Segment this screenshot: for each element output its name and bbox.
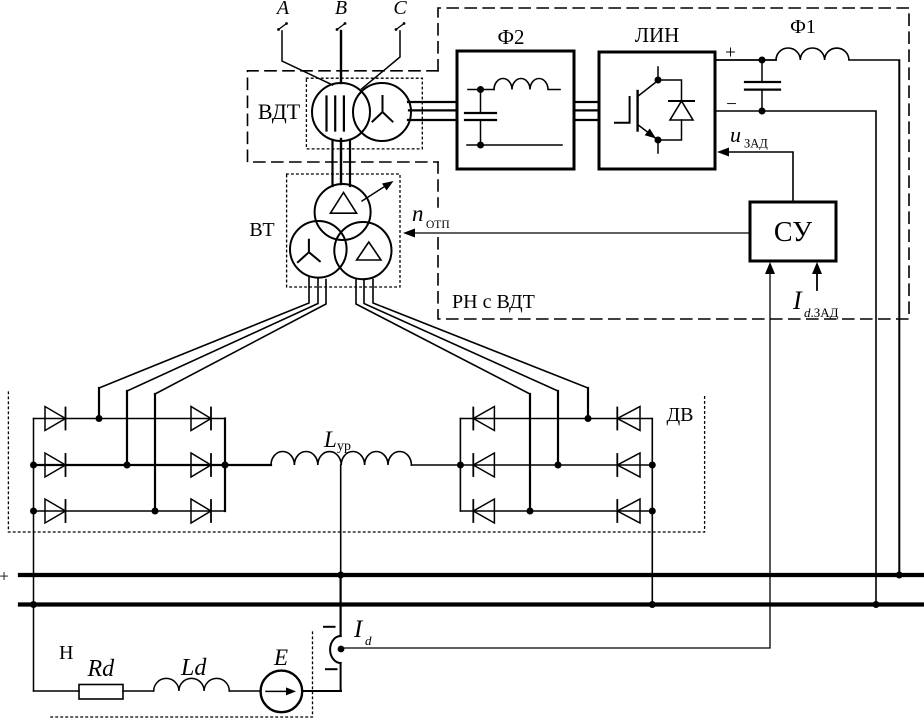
svg-text:ОТП: ОТП	[426, 219, 450, 231]
inverter ЛИН box	[599, 52, 715, 169]
transformer ВДТ primary circle	[312, 83, 370, 141]
wire bus ВДТ to Ф2 (3 lines)	[408, 102, 457, 120]
junction dot IGBT top	[655, 77, 662, 84]
svg-text:I: I	[792, 286, 803, 315]
wire left bridge tap verticals	[99, 388, 155, 511]
wire bus Ф2 to ЛИН (3 lines)	[574, 102, 599, 120]
junction dot plus bus	[896, 572, 903, 579]
inductor L Ф2	[494, 79, 560, 90]
transformer ВТ delta symbol	[357, 242, 381, 260]
junction dot Ф1 top	[759, 57, 766, 64]
svg-text:u: u	[730, 122, 741, 147]
wire Id feedback to СУ	[343, 274, 770, 648]
wire Id sensor from plus bus	[340, 575, 342, 636]
svg-text:ВТ: ВТ	[249, 219, 274, 241]
wire load left segment	[34, 690, 80, 692]
transformer ВТ primary circle	[315, 184, 371, 240]
svg-text:E: E	[273, 645, 288, 670]
svg-text:+: +	[0, 567, 9, 586]
svg-text:ЗАД: ЗАД	[744, 137, 768, 151]
wire phase A	[282, 31, 333, 85]
junction dots on minus bus	[30, 601, 656, 608]
svg-text:d: d	[365, 633, 372, 648]
source E arrow	[266, 687, 296, 695]
wire E to Id sensor	[302, 663, 341, 691]
diode VD1	[45, 407, 66, 431]
wire u_ЗАД	[728, 152, 793, 202]
wire Ф1 plus down to bus	[898, 61, 900, 576]
arrow into СУ from Id feedback	[765, 262, 775, 274]
filter Ф2 box	[457, 51, 574, 169]
wire ВТ delta to right bridge phase 3	[373, 280, 588, 419]
frame: dotted box around ВТ transformer symbol	[287, 174, 400, 287]
diode VD10	[617, 453, 640, 477]
arrow tap changer on ВТ	[362, 177, 396, 201]
label minus upper at Id	[324, 626, 335, 628]
diode VD4	[191, 453, 211, 477]
wire − output of ЛИН	[715, 111, 876, 605]
junction dots left bridge taps	[96, 415, 159, 515]
diode VD7	[473, 407, 494, 431]
diode VD ЛИН triangle	[670, 101, 693, 120]
wire left bridge row 3	[34, 510, 226, 512]
wire Rd to Ld	[123, 690, 154, 692]
label n_ОТП	[412, 201, 450, 231]
wire right bridge tap verticals	[530, 388, 588, 511]
wire n_ОТП	[415, 232, 750, 234]
diode VD2	[191, 407, 211, 431]
junction dots left bridge anode bus	[30, 462, 37, 515]
wire Ld to E	[229, 690, 260, 692]
svg-text:ур: ур	[337, 439, 351, 454]
capacitor C Ф2	[465, 90, 496, 146]
svg-text:C: C	[393, 0, 407, 19]
transistor IGBT collector lead	[638, 67, 658, 97]
terminal tick C	[395, 22, 406, 31]
frame: dotted box ДВ rectifier group	[8, 392, 704, 532]
terminal tick A	[277, 22, 288, 31]
junction dot Lур tap on plus bus	[337, 572, 344, 579]
diode VD12	[617, 499, 640, 523]
svg-text:B: B	[335, 0, 347, 19]
wire + output of ЛИН	[715, 59, 776, 61]
junction dot Ф1 bottom	[759, 108, 766, 115]
transistor IGBT body bar	[636, 91, 638, 131]
source E circle	[261, 671, 303, 713]
transformer ВТ star secondary circle	[290, 221, 347, 278]
transformer ВДТ secondary circle	[353, 83, 411, 141]
wire Ф2 bottom	[467, 144, 562, 146]
transformer ВТ star symbol	[298, 240, 320, 262]
diode VD5	[45, 499, 66, 523]
wire bus ВДТ to ВТ (3 lines)	[333, 139, 351, 186]
wire Lур center tap to plus bus	[340, 465, 342, 575]
svg-text:ЛИН: ЛИН	[635, 23, 680, 47]
diode VD3	[45, 453, 66, 477]
svg-text:−: −	[726, 94, 737, 115]
frame: dotted box load Н	[50, 632, 313, 717]
svg-text:Ф2: Ф2	[497, 25, 524, 49]
wire right bridge anode bus down to minus bus	[651, 419, 653, 605]
wire ВТ star to left bridge phase 2	[127, 279, 318, 466]
wire ВТ delta to right bridge phase 1	[356, 279, 530, 512]
wire left bridge cathode bus	[224, 419, 226, 512]
svg-text:Ф1: Ф1	[790, 16, 816, 38]
frame: dotted box around ВДТ transformer symbol	[306, 78, 422, 149]
bus bar plus	[20, 573, 924, 577]
label u_ЗАД	[730, 122, 768, 151]
svg-text:+: +	[725, 43, 736, 64]
junction dot minus bus	[873, 601, 880, 608]
svg-text:A: A	[275, 0, 290, 19]
transformer ВДТ winding bars	[327, 97, 344, 131]
wire phase C	[362, 31, 401, 89]
transformer ВДТ star symbol	[373, 96, 393, 122]
wire right bridge row 3	[460, 510, 652, 512]
wire Lур to right bridge	[411, 464, 460, 466]
svg-text:Н: Н	[59, 642, 73, 664]
wire right bridge row 2	[460, 464, 652, 466]
transistor IGBT gate	[615, 97, 630, 123]
wire I_d.ЗАД input	[816, 274, 818, 290]
svg-text:ВДТ: ВДТ	[258, 99, 301, 124]
transistor IGBT emitter lead	[638, 125, 658, 154]
frame: dashed box РН с ВДТ	[438, 8, 909, 319]
inductor Ld	[154, 678, 230, 691]
junction dots right bridge taps	[527, 415, 592, 515]
inductor L Ф1	[776, 48, 899, 60]
bus bar minus	[20, 602, 924, 606]
svg-text:СУ: СУ	[774, 217, 812, 248]
diode VD8	[617, 407, 640, 431]
label I_d	[353, 616, 372, 648]
wire right bridge row 1	[460, 418, 652, 420]
svg-text:d.ЗАД: d.ЗАД	[804, 305, 839, 320]
svg-text:РН с ВДТ: РН с ВДТ	[452, 291, 535, 313]
wire diode loop	[658, 80, 682, 140]
wire left bridge row 1	[34, 418, 226, 420]
terminal tick B	[336, 22, 347, 31]
transistor IGBT emitter arrow	[645, 129, 659, 142]
wire ВТ delta to right bridge phase 2	[364, 279, 558, 465]
frame: dashed box ВДТ	[248, 71, 439, 162]
arrow I_d.ЗАД into СУ	[812, 262, 822, 274]
svg-text:Rd: Rd	[87, 656, 116, 682]
wire left bridge row 2	[34, 464, 272, 466]
wire ВТ star to left bridge phase 1	[99, 278, 309, 419]
transformer ВТ primary delta symbol	[330, 193, 356, 214]
junction dots right bridge buses	[457, 462, 656, 515]
svg-text:Ld: Ld	[180, 655, 207, 681]
svg-text:ДВ: ДВ	[667, 404, 694, 426]
svg-text:I: I	[353, 616, 364, 643]
svg-text:L: L	[323, 427, 337, 452]
resistor Rd	[79, 685, 123, 700]
controller СУ box	[750, 202, 836, 261]
wire phase B	[340, 31, 342, 83]
transformer ВТ delta secondary circle	[334, 222, 391, 279]
inductor Lур	[271, 452, 411, 465]
junction dot IGBT bottom	[655, 137, 662, 144]
label Lур	[323, 427, 351, 454]
capacitor C Ф1	[745, 60, 780, 111]
label minus lower at Id	[326, 668, 337, 670]
wire right bridge cathode bus	[459, 419, 461, 512]
wire Ф2 top node	[468, 89, 494, 91]
wire ВТ star to left bridge phase 3	[155, 280, 326, 512]
arrow u_ЗАД	[717, 148, 729, 157]
label I_d.ЗАД	[792, 286, 839, 320]
diode VD9	[473, 453, 494, 477]
wire left bridge anode bus down to minus bus and load	[33, 419, 35, 692]
junction dot Ф2 bottom	[477, 142, 484, 149]
arrow n_ОТП	[403, 229, 415, 238]
junction dot Id sensor	[338, 646, 345, 653]
diode VD11	[473, 499, 494, 523]
sensor Id arc	[330, 636, 341, 663]
junction dot Ф2 top	[477, 86, 484, 93]
junction dot left bridge cathode bus	[222, 462, 229, 469]
diode VD6	[191, 499, 211, 523]
svg-text:n: n	[412, 201, 424, 226]
diode VD ЛИН bar	[669, 100, 694, 102]
